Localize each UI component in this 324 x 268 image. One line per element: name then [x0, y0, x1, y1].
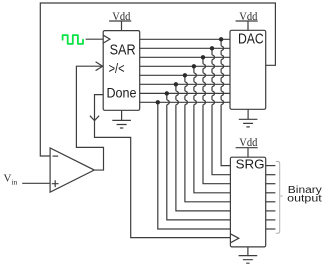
svg-text:SRG: SRG [236, 156, 265, 171]
svg-text:DAC: DAC [238, 31, 264, 47]
svg-text:>/<: >/< [109, 60, 125, 76]
svg-text:Vdd: Vdd [239, 11, 257, 23]
svg-text:Vdd: Vdd [112, 11, 130, 23]
svg-text:output: output [287, 193, 322, 204]
svg-text:Vdd: Vdd [239, 137, 257, 149]
svg-text:SAR: SAR [110, 42, 136, 58]
svg-text:Done: Done [107, 85, 137, 101]
